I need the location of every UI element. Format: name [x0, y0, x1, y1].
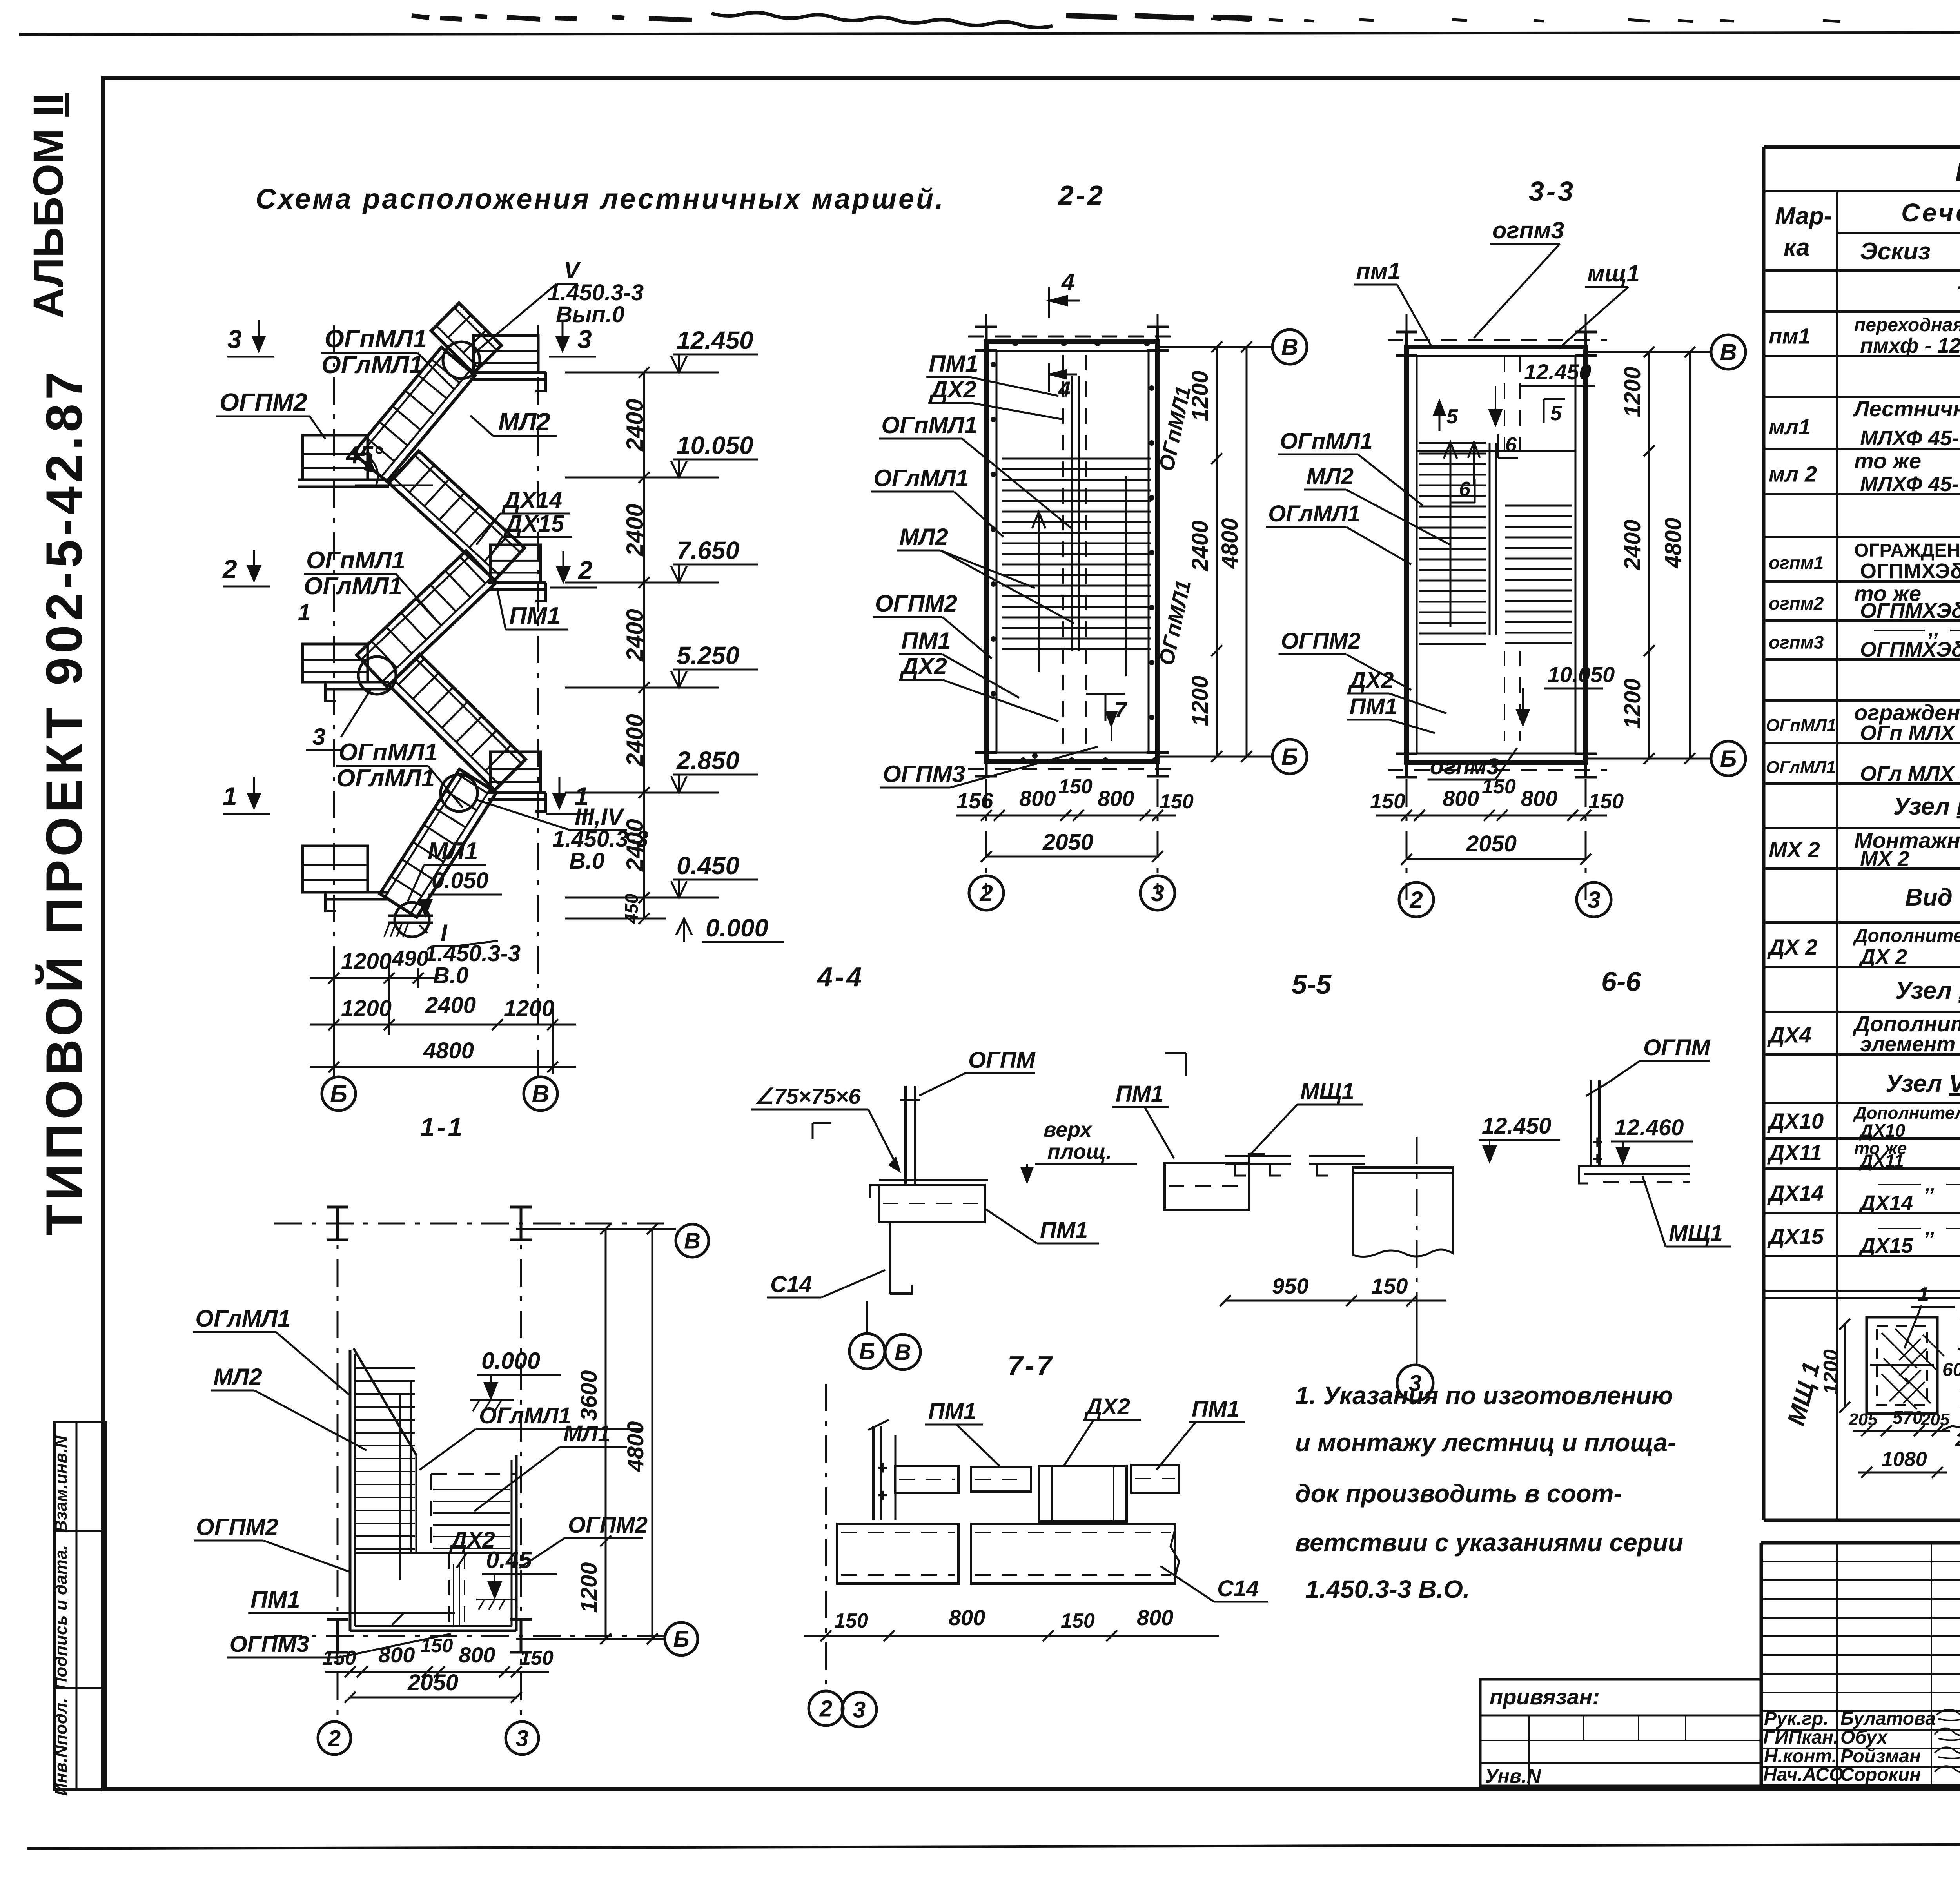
svg-text:ПМ1: ПМ1 — [509, 602, 561, 630]
svg-text:В: В — [684, 1228, 701, 1254]
svg-text:2400: 2400 — [622, 399, 648, 451]
svg-text:150: 150 — [1370, 789, 1405, 813]
svg-text:5-5: 5-5 — [1292, 969, 1332, 1000]
svg-text:800: 800 — [1098, 786, 1134, 811]
svg-text:,,: ,, — [1928, 618, 1940, 640]
svg-text:ГИПкан.: ГИПкан. — [1763, 1727, 1838, 1748]
svg-text:ОГпМЛ1: ОГпМЛ1 — [339, 739, 438, 766]
svg-text:В.0: В.0 — [569, 848, 604, 874]
svg-text:1200: 1200 — [576, 1562, 602, 1613]
svg-text:ОГл МЛХ 45-10.24: ОГл МЛХ 45-10.24 — [1860, 762, 1960, 786]
svg-text:ДХ15: ДХ15 — [1858, 1234, 1913, 1258]
svg-text:150: 150 — [420, 1635, 453, 1657]
svg-text:В: В — [895, 1339, 911, 1365]
svg-text:В.0: В.0 — [433, 963, 468, 988]
svg-text:1200: 1200 — [341, 996, 392, 1021]
svg-text:МЛ1: МЛ1 — [428, 838, 478, 865]
svg-text:150: 150 — [1482, 775, 1516, 798]
svg-text:ДХ15: ДХ15 — [503, 510, 565, 537]
svg-text:Взам.инв.N: Взам.инв.N — [51, 1435, 71, 1533]
svg-text:переходная площадка: переходная площадка — [1854, 315, 1960, 336]
svg-text:4-4: 4-4 — [817, 962, 864, 992]
svg-text:∠75×75×6: ∠75×75×6 — [754, 1084, 861, 1109]
svg-text:10.050: 10.050 — [1548, 662, 1615, 687]
svg-text:4: 4 — [1061, 269, 1074, 295]
svg-text:10.050: 10.050 — [677, 431, 753, 459]
svg-text:1. Указания по изготовлению: 1. Указания по изготовлению — [1295, 1381, 1673, 1410]
svg-text:пмхф - 12.8: пмхф - 12.8 — [1860, 334, 1960, 357]
svg-text:мл 2: мл 2 — [1769, 462, 1817, 486]
svg-text:150: 150 — [1160, 790, 1194, 813]
svg-text:1: 1 — [298, 600, 310, 625]
svg-text:3: 3 — [516, 1726, 528, 1751]
svg-text:ОГлМЛ1: ОГлМЛ1 — [1268, 501, 1360, 526]
svg-text:800: 800 — [1521, 786, 1557, 811]
svg-text:ДХ10: ДХ10 — [1767, 1109, 1824, 1133]
svg-text:1200: 1200 — [504, 996, 554, 1021]
svg-text:3600: 3600 — [576, 1370, 602, 1421]
svg-text:ДХ2: ДХ2 — [899, 653, 947, 679]
svg-text:Узел III лист 8: Узел III лист 8 — [1893, 793, 1960, 820]
svg-text:ДХ2: ДХ2 — [1348, 668, 1394, 693]
svg-text:привязан:: привязан: — [1490, 1684, 1600, 1709]
svg-text:МХ 2: МХ 2 — [1769, 837, 1820, 862]
svg-text:ОГПМ3: ОГПМ3 — [230, 1631, 309, 1657]
svg-text:7: 7 — [1114, 697, 1128, 722]
svg-text:ДХ2: ДХ2 — [1084, 1394, 1130, 1419]
svg-text:6: 6 — [1459, 478, 1471, 501]
svg-text:МЛ1: МЛ1 — [563, 1421, 610, 1446]
svg-text:ветствии с указаниями серии: ветствии с указаниями серии — [1295, 1528, 1683, 1557]
svg-text:0.050: 0.050 — [432, 868, 488, 893]
svg-text:150: 150 — [1371, 1274, 1408, 1298]
svg-text:Нач.АСО: Нач.АСО — [1763, 1764, 1844, 1785]
svg-text:Эскиз: Эскиз — [1860, 238, 1931, 265]
svg-text:1: 1 — [1918, 1283, 1929, 1306]
svg-text:ОГПМ: ОГПМ — [1643, 1035, 1711, 1060]
svg-text:950: 950 — [1272, 1274, 1308, 1298]
svg-text:7.650: 7.650 — [677, 536, 739, 564]
svg-text:Дополнительный элемент: Дополнительный элемент — [1853, 1103, 1960, 1123]
svg-text:ОГпМЛ1: ОГпМЛ1 — [325, 325, 427, 353]
svg-text:ДХ14: ДХ14 — [1767, 1181, 1824, 1205]
svg-text:ОГлМЛ1: ОГлМЛ1 — [336, 765, 435, 792]
svg-text:5: 5 — [1550, 402, 1562, 425]
svg-text:ПМ1: ПМ1 — [1350, 694, 1397, 719]
svg-text:4800: 4800 — [623, 1421, 648, 1472]
svg-text:Вып.0: Вып.0 — [556, 302, 624, 327]
svg-text:800: 800 — [459, 1642, 495, 1667]
svg-text:150: 150 — [322, 1647, 356, 1669]
svg-text:2400: 2400 — [1620, 519, 1645, 570]
svg-text:4800: 4800 — [423, 1038, 474, 1063]
svg-text:Унв.N: Унв.N — [1485, 1765, 1541, 1787]
svg-text:верх: верх — [1044, 1118, 1093, 1141]
svg-text:Б: Б — [1720, 746, 1737, 772]
svg-text:1-1: 1-1 — [420, 1112, 465, 1141]
svg-text:МЩ1: МЩ1 — [1300, 1079, 1354, 1104]
svg-text:450: 450 — [621, 893, 642, 924]
svg-text:1200: 1200 — [1620, 367, 1645, 417]
svg-text:ОГПМ2: ОГПМ2 — [1281, 628, 1361, 654]
svg-text:3: 3 — [1151, 880, 1164, 906]
svg-text:2400: 2400 — [425, 993, 476, 1018]
svg-text:С14: С14 — [1217, 1576, 1259, 1601]
svg-text:3: 3 — [227, 325, 242, 354]
svg-text:ОГПМ2: ОГПМ2 — [196, 1514, 278, 1540]
svg-text:ОГлМЛ1: ОГлМЛ1 — [321, 350, 423, 379]
svg-text:огпм2: огпм2 — [1769, 593, 1824, 613]
svg-text:ДХ11: ДХ11 — [1767, 1140, 1822, 1165]
svg-text:150: 150 — [1061, 1610, 1095, 1632]
svg-text:ОГПМХЭδ-10.9: ОГПМХЭδ-10.9 — [1860, 559, 1960, 583]
svg-text:В: В — [1720, 339, 1737, 365]
svg-text:ОГПМ3: ОГПМ3 — [883, 761, 965, 787]
svg-text:Ведомость: Ведомость — [1955, 157, 1960, 187]
svg-text:ОГпМЛ1: ОГпМЛ1 — [881, 412, 977, 438]
svg-text:ПМ1: ПМ1 — [1040, 1218, 1088, 1243]
svg-text:Сорокин: Сорокин — [1840, 1764, 1921, 1785]
svg-text:ІІІ,ІV: ІІІ,ІV — [575, 804, 625, 830]
svg-text:МЛ2: МЛ2 — [899, 524, 948, 550]
svg-text:12.450: 12.450 — [1482, 1113, 1551, 1139]
svg-text:Обух: Обух — [1840, 1727, 1888, 1748]
svg-text:ОГлМЛ1: ОГлМЛ1 — [195, 1305, 290, 1332]
svg-text:45°: 45° — [345, 442, 383, 469]
svg-text:ОГПМ2: ОГПМ2 — [568, 1512, 648, 1538]
svg-text:ДХ 2: ДХ 2 — [1767, 935, 1818, 959]
svg-text:3: 3 — [577, 325, 592, 354]
svg-text:1.450.3-3 В.О.: 1.450.3-3 В.О. — [1305, 1575, 1470, 1603]
svg-text:12.460: 12.460 — [1614, 1115, 1684, 1140]
svg-text:ДХ4: ДХ4 — [1767, 1022, 1811, 1047]
svg-text:ОГПМ: ОГПМ — [968, 1047, 1036, 1073]
svg-text:и монтажу лестниц и площа-: и монтажу лестниц и площа- — [1295, 1428, 1676, 1457]
svg-text:2400: 2400 — [622, 609, 648, 661]
svg-text:150: 150 — [1058, 775, 1093, 798]
svg-text:ПМ1: ПМ1 — [1116, 1081, 1163, 1107]
svg-text:ДХ14: ДХ14 — [1858, 1191, 1913, 1215]
svg-text:ОГпМЛ1: ОГпМЛ1 — [306, 547, 405, 574]
svg-text:2: 2 — [222, 554, 237, 583]
svg-text:3: 3 — [1587, 887, 1600, 913]
svg-text:156: 156 — [956, 788, 993, 813]
svg-text:Булатова: Булатова — [1840, 1708, 1936, 1729]
svg-text:док производить в соот-: док производить в соот- — [1295, 1479, 1622, 1508]
svg-text:ОГпМЛ1: ОГпМЛ1 — [1766, 716, 1836, 735]
svg-text:1200: 1200 — [1620, 678, 1645, 729]
svg-text:элемент ДХ4: элемент ДХ4 — [1860, 1033, 1960, 1056]
svg-text:Рук.гр.: Рук.гр. — [1764, 1708, 1829, 1729]
svg-text:Б: Б — [1281, 744, 1298, 770]
svg-text:2050: 2050 — [1466, 831, 1517, 857]
svg-text:ПМ1: ПМ1 — [901, 628, 951, 654]
svg-text:3-3: 3-3 — [1529, 176, 1575, 207]
svg-text:12.450: 12.450 — [677, 326, 753, 354]
svg-text:3: 3 — [312, 724, 325, 750]
svg-text:АЛЬБОМ II: АЛЬБОМ II — [24, 93, 72, 318]
svg-text:2: 2 — [1409, 887, 1423, 913]
svg-text:ОГлМЛ1: ОГлМЛ1 — [873, 465, 969, 491]
svg-text:0.000: 0.000 — [481, 1348, 540, 1374]
svg-text:Б: Б — [330, 1081, 347, 1108]
svg-text:Б: Б — [859, 1339, 875, 1364]
svg-text:2400: 2400 — [622, 504, 648, 556]
svg-text:0.450: 0.450 — [677, 851, 739, 880]
svg-text:Узел V,VI лист 8.: Узел V,VI лист 8. — [1886, 1070, 1960, 1097]
svg-text:1200: 1200 — [1820, 1349, 1842, 1395]
svg-text:МЛ2: МЛ2 — [1307, 464, 1354, 489]
svg-text:1: 1 — [223, 782, 237, 811]
svg-text:площ.: площ. — [1047, 1140, 1112, 1163]
svg-text:4800: 4800 — [1217, 518, 1243, 569]
svg-text:ДХ2: ДХ2 — [929, 376, 976, 403]
svg-text:МХ 2: МХ 2 — [1860, 847, 1909, 871]
svg-text:ОГПМ2: ОГПМ2 — [875, 590, 957, 617]
svg-text:0.000: 0.000 — [706, 914, 768, 942]
svg-text:ДХ10: ДХ10 — [1858, 1120, 1905, 1141]
svg-text:ПМ1: ПМ1 — [250, 1586, 300, 1613]
svg-text:800: 800 — [378, 1642, 415, 1667]
svg-text:800: 800 — [1137, 1605, 1173, 1630]
svg-text:ОГПМХЭδ - 10.12.: ОГПМХЭδ - 10.12. — [1860, 599, 1960, 622]
svg-text:Дополнительный элемент: Дополнительный элемент — [1853, 925, 1960, 946]
svg-text:1080: 1080 — [1882, 1448, 1927, 1471]
svg-text:,,: ,, — [1925, 1218, 1936, 1239]
svg-text:+: + — [877, 1485, 888, 1505]
svg-text:ОГлМЛ1: ОГлМЛ1 — [1766, 758, 1836, 777]
svg-text:Подпись и дата.: Подпись и дата. — [51, 1545, 71, 1690]
svg-text:Мар-: Мар- — [1775, 203, 1832, 230]
svg-text:4: 4 — [1058, 377, 1071, 401]
svg-text:огпм1: огпм1 — [1769, 552, 1824, 573]
svg-text:С14: С14 — [770, 1272, 812, 1297]
svg-text:ОГРАЖДЕНИЕ ПЛОЩАДОК: ОГРАЖДЕНИЕ ПЛОЩАДОК — [1854, 540, 1960, 561]
svg-text:3: 3 — [853, 1697, 866, 1722]
svg-text:ТИПОВОЙ ПРОЕКТ 902-5-42.87: ТИПОВОЙ ПРОЕКТ 902-5-42.87 — [35, 368, 93, 1236]
svg-text:800: 800 — [1443, 786, 1479, 811]
svg-text:Вид С лист 8: Вид С лист 8 — [1905, 884, 1960, 911]
svg-text:2400: 2400 — [1187, 520, 1213, 571]
svg-text:4800: 4800 — [1661, 517, 1686, 568]
svg-text:МЛХФ 45- 24.8: МЛХФ 45- 24.8 — [1860, 472, 1960, 496]
svg-text:В: В — [532, 1081, 550, 1108]
svg-text:ОГп МЛХ 45-10.24.: ОГп МЛХ 45-10.24. — [1860, 721, 1960, 745]
svg-text:205: 205 — [1920, 1410, 1950, 1429]
svg-text:205: 205 — [1848, 1410, 1878, 1429]
svg-text:490: 490 — [392, 946, 428, 971]
svg-text:В: В — [1281, 334, 1298, 360]
svg-text:Н.конт.: Н.конт. — [1764, 1746, 1837, 1767]
svg-text:2: 2 — [979, 880, 993, 906]
svg-text:МЛ2: МЛ2 — [213, 1364, 262, 1390]
svg-text:ОГПМ2: ОГПМ2 — [220, 388, 307, 416]
svg-text:ка: ка — [1784, 234, 1810, 261]
svg-text:ДХ 2: ДХ 2 — [1858, 945, 1907, 969]
svg-text:ПМ1: ПМ1 — [1192, 1396, 1240, 1422]
svg-text:2050: 2050 — [407, 1670, 458, 1695]
svg-text:Схема расположения лестничны: Схема расположения лестничных маршей. — [256, 183, 945, 215]
svg-text:ДХ14: ДХ14 — [501, 487, 562, 513]
svg-text:,,: ,, — [1925, 1174, 1936, 1195]
svg-text:МЛХФ 45- 6.8: МЛХФ 45- 6.8 — [1860, 426, 1960, 450]
svg-text:ОГПМХЭδ-10.21: ОГПМХЭδ-10.21 — [1860, 638, 1960, 661]
svg-text:7-7: 7-7 — [1007, 1350, 1054, 1381]
svg-text:Б: Б — [673, 1626, 689, 1652]
svg-text:пм1: пм1 — [1356, 258, 1401, 284]
svg-text:Ройзман: Ройзман — [1840, 1746, 1921, 1767]
svg-text:МЩ1: МЩ1 — [1669, 1221, 1723, 1246]
svg-text:2: 2 — [577, 555, 593, 584]
svg-text:мл1: мл1 — [1769, 414, 1811, 439]
svg-text:пм1: пм1 — [1769, 323, 1811, 348]
svg-text:ПМ1: ПМ1 — [929, 350, 978, 377]
svg-text:2-2: 2-2 — [1058, 180, 1105, 211]
svg-text:ОГлМЛ1: ОГлМЛ1 — [304, 573, 402, 600]
svg-text:60: 60 — [1942, 1359, 1960, 1380]
svg-text:1200: 1200 — [341, 949, 392, 974]
svg-text:2400: 2400 — [622, 714, 648, 766]
svg-text:800: 800 — [949, 1605, 985, 1630]
svg-text:то же: то же — [1854, 448, 1921, 473]
svg-text:12.450: 12.450 — [1524, 359, 1591, 384]
svg-text:Типовые: Типовые — [1956, 280, 1960, 311]
svg-text:1200: 1200 — [1187, 675, 1213, 726]
svg-text:V: V — [564, 257, 581, 283]
svg-text:1200: 1200 — [1187, 370, 1213, 421]
svg-text:Инв.Nподл.: Инв.Nподл. — [51, 1698, 71, 1795]
svg-text:150: 150 — [519, 1647, 554, 1669]
svg-text:150: 150 — [1588, 789, 1624, 813]
svg-text:2: 2 — [328, 1726, 341, 1751]
svg-text:МЛ2: МЛ2 — [498, 408, 550, 436]
svg-text:ОГлМЛ1: ОГлМЛ1 — [479, 1403, 571, 1428]
svg-text:5.250: 5.250 — [677, 641, 739, 670]
svg-text:+: + — [1592, 1149, 1602, 1169]
svg-text:мщ1: мщ1 — [1587, 260, 1640, 287]
svg-text:ДХ15: ДХ15 — [1767, 1224, 1824, 1248]
svg-text:ДХ11: ДХ11 — [1858, 1151, 1904, 1171]
svg-text:800: 800 — [1019, 786, 1056, 811]
svg-text:Узел IV лист 8: Узел IV лист 8 — [1895, 977, 1960, 1004]
svg-text:огпм3: огпм3 — [1492, 217, 1564, 243]
svg-text:Сечения: Сечения — [1901, 198, 1960, 227]
svg-text:Лестничный марш: Лестничный марш — [1853, 396, 1960, 421]
svg-text:150: 150 — [834, 1610, 868, 1632]
svg-text:+: + — [877, 1457, 888, 1478]
svg-text:2: 2 — [819, 1696, 832, 1721]
svg-text:ОГпМЛ1: ОГпМЛ1 — [1280, 428, 1373, 454]
svg-text:ПМ1: ПМ1 — [928, 1399, 976, 1424]
svg-text:2: 2 — [1955, 1429, 1960, 1451]
svg-text:6-6: 6-6 — [1601, 966, 1641, 997]
svg-text:огпм3: огпм3 — [1769, 632, 1824, 652]
svg-text:6: 6 — [1505, 434, 1517, 456]
svg-text:570: 570 — [1893, 1407, 1923, 1428]
svg-text:2050: 2050 — [1042, 829, 1093, 855]
svg-text:ДХ2: ДХ2 — [449, 1527, 495, 1553]
svg-text:5: 5 — [1446, 405, 1458, 428]
svg-text:2.850: 2.850 — [676, 746, 739, 775]
